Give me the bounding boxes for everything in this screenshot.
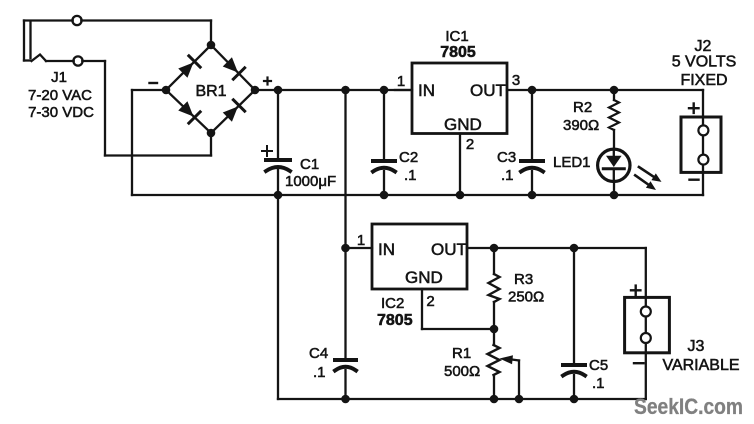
svg-text:R3: R3 (514, 271, 533, 288)
capacitor C3 (497, 90, 543, 195)
svg-text:3: 3 (512, 72, 520, 89)
LED LED1 (553, 130, 662, 195)
svg-text:IN: IN (378, 240, 395, 259)
svg-text:.1: .1 (592, 375, 605, 392)
svg-text:390Ω: 390Ω (563, 117, 599, 134)
node LED bottom (610, 191, 619, 200)
svg-text:7-20 VAC: 7-20 VAC (28, 87, 92, 104)
svg-text:.1: .1 (404, 167, 417, 184)
node IC1 GND (456, 191, 465, 200)
svg-text:GND: GND (405, 268, 443, 287)
diode lower-right (222, 100, 245, 123)
connector J3 (625, 286, 740, 399)
svg-text:IN: IN (418, 81, 435, 100)
node C1 bottom (274, 191, 283, 200)
svg-text:250Ω: 250Ω (508, 289, 544, 306)
capacitor C5 (563, 248, 608, 399)
wire IC2 OUT rail (467, 248, 646, 297)
wire DC+ rail (255, 89, 412, 91)
diode upper-left (177, 56, 200, 79)
node R3/R1/GND junction (490, 325, 499, 334)
node C5 bottom (570, 395, 579, 404)
svg-text:C5: C5 (589, 357, 608, 374)
wire IC2 GND to R3/R1 junction (422, 289, 494, 329)
svg-text:2: 2 (426, 293, 434, 310)
bridge rectifier BR1 (150, 41, 272, 138)
svg-text:R1: R1 (452, 345, 471, 362)
wire IC1 OUT rail (507, 90, 703, 117)
svg-text:2: 2 (466, 136, 474, 153)
svg-text:OUT: OUT (431, 240, 467, 259)
svg-text:C2: C2 (399, 149, 418, 166)
svg-text:IC1: IC1 (445, 28, 468, 45)
bottom ground rail lower section (278, 398, 646, 400)
node C3 bottom (528, 191, 537, 200)
capacitor C1 (262, 90, 336, 195)
resistor R2 (563, 90, 619, 134)
svg-text:C4: C4 (309, 345, 328, 362)
node IC2 IN junction (341, 244, 350, 253)
svg-text:J2: J2 (695, 38, 712, 55)
svg-text:.1: .1 (501, 167, 514, 184)
svg-text:7805: 7805 (377, 312, 413, 329)
svg-text:IC2: IC2 (381, 295, 404, 312)
node C4 bottom (341, 395, 350, 404)
node wiper bottom (515, 395, 524, 404)
node R3 top (490, 244, 499, 253)
ground rail top section (132, 194, 703, 196)
svg-text:5 VOLTS: 5 VOLTS (672, 54, 737, 71)
node C2 top (380, 86, 389, 95)
wire IC1 GND to ground rail (459, 134, 461, 196)
op IC2 7805 regulator (346, 224, 468, 329)
svg-text:500Ω: 500Ω (444, 363, 480, 380)
node C1 top (274, 86, 283, 95)
node R2 top (610, 86, 619, 95)
svg-text:GND: GND (444, 115, 482, 134)
op IC1 7805 regulator (395, 28, 520, 153)
svg-text:VARIABLE: VARIABLE (662, 357, 739, 374)
svg-text:1: 1 (397, 73, 405, 90)
svg-text:7805: 7805 (440, 44, 476, 61)
svg-text:OUT: OUT (470, 81, 506, 100)
svg-text:C1: C1 (300, 156, 319, 173)
connector J1 (24, 16, 94, 121)
node IC2 feed top (341, 86, 350, 95)
svg-text:J3: J3 (688, 338, 705, 355)
node C2 bottom (380, 191, 389, 200)
potentiometer R1 (444, 329, 519, 399)
capacitor C4 (309, 248, 356, 399)
wire DC+ down to IC2 IN (344, 90, 346, 248)
svg-text:J1: J1 (51, 69, 67, 86)
LED light arrows (635, 167, 661, 190)
svg-text:SeekIC.com: SeekIC.com (634, 394, 743, 419)
wire ground rail down to lower section (277, 195, 279, 399)
svg-text:1000μF: 1000μF (285, 173, 336, 190)
resistor R3 (489, 248, 545, 329)
svg-text:7-30 VDC: 7-30 VDC (28, 104, 94, 121)
wire J1 top terminal to bridge top (24, 21, 211, 46)
svg-text:.1: .1 (313, 364, 326, 381)
node R1 bottom (490, 395, 499, 404)
svg-text:BR1: BR1 (195, 83, 226, 100)
node C3 top (528, 86, 537, 95)
svg-text:1: 1 (357, 232, 365, 249)
diode lower-left (177, 100, 200, 123)
wire J1 bottom terminal to bridge bottom (46, 61, 211, 156)
svg-text:FIXED: FIXED (680, 72, 727, 89)
capacitor C2 (373, 90, 418, 195)
svg-text:C3: C3 (497, 149, 516, 166)
wire bridge minus to ground rail (132, 90, 166, 195)
svg-text:R2: R2 (573, 99, 592, 116)
connector J2 (672, 38, 737, 195)
node C5 top (570, 244, 579, 253)
diode upper-right (222, 56, 245, 79)
svg-text:LED1: LED1 (553, 154, 591, 171)
wiper arrow (518, 361, 520, 400)
